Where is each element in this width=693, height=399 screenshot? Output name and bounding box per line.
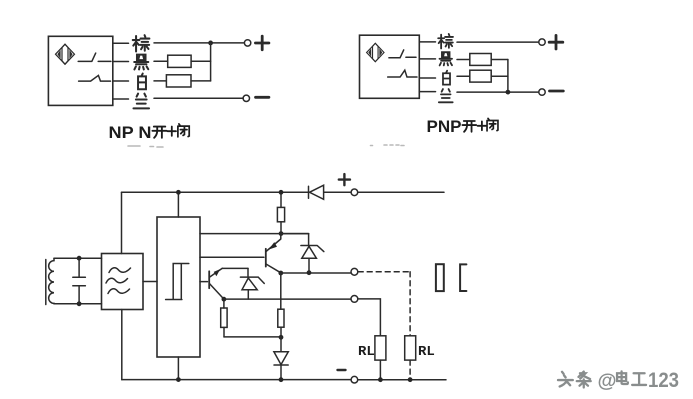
terminal circle - PNP xyxy=(539,89,545,95)
junction dot NPN xyxy=(208,41,213,46)
wire stub black PNP xyxy=(419,58,435,60)
label 棕 NPN xyxy=(133,35,150,51)
watermark 电 xyxy=(617,371,628,384)
arrow Q1 emitter xyxy=(214,269,221,276)
junction dot diode bottom rail xyxy=(279,377,284,382)
terminal circle - NPN xyxy=(243,95,249,101)
wire black PNP xyxy=(457,59,508,61)
filter wave 1 xyxy=(109,268,131,273)
wire node 273 to output 1 xyxy=(281,272,351,274)
watermark white emboss layer xyxy=(557,370,645,386)
wire RL1 to rail xyxy=(379,360,381,380)
DC label letter C xyxy=(460,264,466,291)
label 棕 PNP xyxy=(438,34,453,49)
wire Q2 emitter down + resistor R4 xyxy=(278,273,284,337)
label 白 PNP xyxy=(443,71,450,85)
faint scan marks below PNP caption xyxy=(371,144,405,147)
junction dot rail R2 xyxy=(279,190,284,195)
svg-text:@: @ xyxy=(598,370,617,392)
sensor box PNP xyxy=(360,35,420,98)
filter wave 2 xyxy=(106,278,128,283)
switch contact 2 (PNP box) xyxy=(388,70,417,77)
bottom rail xyxy=(122,379,446,381)
wire schmitt bottom to rail xyxy=(177,357,179,380)
label 白 NPN xyxy=(138,74,146,90)
arrow Q2 emitter xyxy=(269,242,278,250)
caption NPN xyxy=(109,123,152,142)
transistor Q2 xyxy=(266,234,281,273)
wire stub white NPN xyxy=(113,80,129,82)
terminal circle - bottom xyxy=(351,376,358,383)
wire stub brown PNP xyxy=(419,41,435,43)
junction dot Q1 emitter node xyxy=(222,297,227,302)
plus sign PNP xyxy=(549,35,563,49)
left rail upper xyxy=(121,192,123,253)
label RL2 xyxy=(418,344,435,360)
label RL1 xyxy=(358,344,375,360)
terminal circle + NPN xyxy=(244,40,250,46)
dashed wire from output 1 xyxy=(358,271,410,273)
wire Q1 top to zener1 xyxy=(222,267,248,269)
wire node233 corner to zener2 xyxy=(281,233,309,235)
wire blue NPN to - xyxy=(154,97,243,99)
filter wave 3 xyxy=(108,289,130,294)
wire stub brown NPN xyxy=(113,42,129,44)
terminal circle + bottom xyxy=(351,189,358,196)
wire LC bottom xyxy=(54,303,102,305)
zener diode Z2 xyxy=(301,234,324,273)
watermark 工 xyxy=(632,373,646,385)
minus sign bottom xyxy=(338,369,346,371)
junction dot RL1 rail xyxy=(378,377,383,382)
svg-text:123: 123 xyxy=(648,368,679,392)
caption PNP xyxy=(427,117,462,136)
sensor box NPN xyxy=(48,36,112,105)
schmitt trigger box xyxy=(157,217,200,357)
terminal circle + PNP xyxy=(539,39,545,45)
junction dot LC bottom xyxy=(77,301,82,306)
switch contact 1 (PNP box) xyxy=(389,50,416,58)
label 兰 NPN xyxy=(133,94,149,109)
inductor L1 coil xyxy=(49,258,54,304)
svg-text:NP N: NP N xyxy=(109,123,152,142)
wire schmitt to Q1 base xyxy=(200,281,208,283)
wire vertical join PNP xyxy=(507,60,509,93)
wire schmitt to Q2 base xyxy=(200,256,264,258)
wire white NPN xyxy=(154,80,211,82)
wire brown PNP to + xyxy=(457,41,539,43)
filter box xyxy=(102,254,144,310)
capacitor C1 xyxy=(73,258,86,304)
minus sign PNP xyxy=(550,90,564,93)
wire schmitt to node 233 xyxy=(200,233,309,235)
switch contact 1 (NPN box) xyxy=(78,53,111,61)
transistor Q1 xyxy=(209,268,224,299)
top rail xyxy=(122,191,445,193)
junction dot LC top xyxy=(77,256,82,261)
junction dot zener2 anode xyxy=(307,270,312,275)
resistor R3 (Q1 emitter) xyxy=(221,299,227,337)
plus sign NPN xyxy=(255,36,269,50)
watermark 条 xyxy=(577,372,591,388)
output terminal circle 2 xyxy=(351,296,358,303)
sensor head symbol NPN xyxy=(56,44,75,64)
zener diode Z1 xyxy=(240,268,264,299)
junction dot node 337 xyxy=(279,335,284,340)
svg-text:PNP: PNP xyxy=(427,117,462,136)
protection diode D1 xyxy=(309,185,324,199)
svg-text:RL: RL xyxy=(358,344,375,360)
sensor head symbol PNP xyxy=(367,43,384,61)
watermark @ xyxy=(598,370,617,392)
wire stub white PNP xyxy=(419,77,435,79)
schmitt symbol xyxy=(166,264,189,300)
output terminal circle 1 xyxy=(351,268,358,275)
wire stub blue PNP xyxy=(419,91,435,93)
switch contact 2 (NPN box) xyxy=(79,75,111,81)
wire R3 bottom to node 337 xyxy=(224,336,281,338)
wire filter to schmitt xyxy=(143,281,157,283)
resistor RL1 xyxy=(375,336,386,360)
wire blue PNP to - xyxy=(457,91,539,93)
resistor black PNP xyxy=(470,54,491,66)
minus sign NPN xyxy=(256,96,269,99)
resistor white PNP xyxy=(470,70,491,82)
junction dot PNP xyxy=(506,90,511,95)
resistor white NPN xyxy=(166,75,191,87)
DC label letter D xyxy=(436,264,444,291)
label 黑 PNP xyxy=(439,52,452,65)
resistor RL2 xyxy=(405,336,416,360)
wire stub black NPN xyxy=(113,61,129,63)
wire schmitt top to rail xyxy=(177,192,179,217)
junction dot bottom rail schmitt xyxy=(176,377,181,382)
faint scan marks below NPN caption xyxy=(128,146,163,147)
wire white PNP xyxy=(457,75,508,77)
watermark 头 xyxy=(558,372,573,387)
wire brown NPN to + xyxy=(154,42,244,44)
svg-text:RL: RL xyxy=(418,344,435,360)
junction dot rail-schmitt xyxy=(176,190,181,195)
label 兰 PNP xyxy=(439,89,453,102)
left rail lower xyxy=(121,310,123,380)
plus sign bottom xyxy=(339,174,350,185)
diode D3 bottom xyxy=(274,337,288,379)
wire stub blue NPN xyxy=(113,98,129,100)
watermark 123 xyxy=(648,368,679,392)
junction dot node 233 xyxy=(279,231,284,236)
junction dot Q2 emitter node xyxy=(278,271,283,276)
resistor R2 top xyxy=(277,192,284,233)
wire output2 to RL1 xyxy=(358,299,381,336)
wire black NPN xyxy=(154,60,211,62)
wire LC top xyxy=(54,257,102,259)
oscillator core bar xyxy=(45,260,47,305)
dashed vertical load branch xyxy=(409,272,411,380)
label 黑 NPN xyxy=(134,55,148,70)
wire vertical join NPN xyxy=(210,43,212,81)
resistor black NPN xyxy=(168,55,191,67)
wire node 299 to output 2 xyxy=(224,298,351,300)
junction dot RL2 rail xyxy=(408,377,413,382)
